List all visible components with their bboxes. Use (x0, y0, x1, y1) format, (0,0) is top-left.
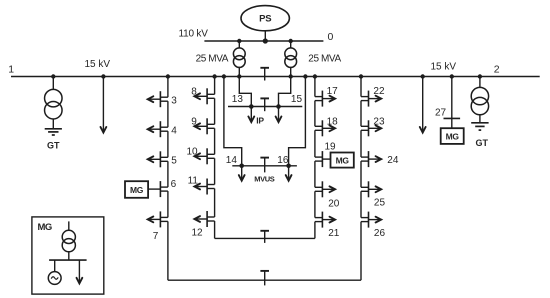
label node 25 (374, 197, 386, 208)
wire PS to 110 kV bus (264, 31, 266, 41)
legend transformer (62, 230, 75, 252)
label node 11 (188, 175, 199, 186)
node 14 junction (239, 164, 244, 169)
label node 16 (277, 155, 289, 166)
label node 19 (325, 142, 337, 153)
label node 14 (226, 155, 238, 166)
power source PS (241, 6, 289, 31)
load arrow node 14 (239, 166, 245, 181)
switch 18 (315, 120, 335, 136)
NO switch outer tie (260, 271, 269, 286)
svg-text:5: 5 (171, 155, 177, 166)
label 25 MVA right (308, 54, 341, 65)
label IP (256, 115, 264, 125)
svg-text:15 kV: 15 kV (431, 62, 457, 73)
label node 26 (374, 228, 386, 239)
switch 4 (148, 121, 168, 137)
node 1-2 main bus 15 kV (11, 76, 540, 78)
svg-text:15 kV: 15 kV (85, 59, 111, 70)
switch 23 (361, 120, 381, 136)
label node 8 (191, 87, 197, 98)
MVUS tie wire (232, 165, 297, 167)
legend generator (48, 260, 61, 284)
svg-text:MG: MG (446, 131, 460, 141)
svg-text:18: 18 (327, 117, 339, 128)
label 110 kV (179, 29, 209, 40)
svg-text:12: 12 (192, 227, 204, 238)
label node 0 (328, 31, 334, 43)
svg-text:15: 15 (291, 94, 303, 105)
svg-text:10: 10 (187, 146, 199, 157)
switch 17 (315, 91, 335, 107)
NO switch between transformers (260, 68, 269, 81)
switch 11 (194, 179, 214, 195)
outer tie wire (168, 279, 361, 281)
MG box at 6 (125, 181, 148, 198)
label node 6 (171, 179, 177, 190)
label node 10 (187, 146, 199, 157)
label node 15 (291, 94, 303, 105)
label node 17 (327, 86, 339, 97)
NO switch MVUS (260, 158, 269, 173)
label node 1 (8, 63, 14, 75)
svg-text:13: 13 (232, 94, 244, 105)
svg-text:25 MVA: 25 MVA (196, 54, 229, 65)
label node 7 (153, 231, 159, 242)
svg-text:21: 21 (328, 228, 340, 239)
NO switch IP (260, 98, 269, 111)
IP tie wire (228, 106, 302, 108)
NO switch 27 (444, 117, 461, 119)
label node 27 (435, 107, 447, 118)
legend wire top (68, 221, 70, 230)
ground GT right (471, 115, 488, 130)
svg-text:GT: GT (47, 140, 60, 150)
legend busbar (49, 259, 87, 261)
label node 2 (494, 64, 500, 76)
wire bus to node 14 (222, 74, 242, 166)
switch 19 (315, 151, 323, 167)
svg-text:23: 23 (373, 117, 385, 128)
svg-text:7: 7 (153, 231, 159, 242)
feeder wire A (nodes 3-7) (167, 77, 169, 281)
label node 4 (171, 125, 177, 136)
wire bus to node 15 (279, 74, 293, 106)
svg-text:3: 3 (171, 95, 177, 106)
switch 3 (148, 91, 168, 107)
switch 5 (148, 151, 168, 167)
svg-text:26: 26 (374, 228, 386, 239)
junction on 110 kV bus at T2 (289, 39, 293, 43)
svg-text:PS: PS (259, 14, 271, 25)
switch 24 (361, 151, 381, 167)
wire switch 19 to MG (322, 158, 330, 160)
MG box at 19 (331, 153, 354, 168)
svg-text:6: 6 (171, 179, 177, 190)
wire switch 6 to MG (148, 188, 160, 190)
svg-text:11: 11 (188, 175, 199, 186)
label 15 kV left (85, 59, 111, 70)
label node 22 (373, 86, 385, 97)
wire bus to node 16 (289, 74, 308, 166)
switch 26 (361, 212, 381, 228)
switch 22 (361, 91, 381, 107)
svg-text:IP: IP (256, 115, 264, 125)
svg-text:17: 17 (327, 86, 339, 97)
NO switch inner tie (260, 231, 269, 243)
switch 25 (361, 181, 381, 197)
switch 12 (194, 211, 214, 227)
node 0 bus 110 kV (204, 40, 323, 42)
label GT left (47, 140, 60, 150)
junction bus feeder B (212, 74, 216, 78)
svg-text:22: 22 (373, 86, 385, 97)
switch 10 (194, 148, 214, 164)
svg-text:4: 4 (171, 125, 177, 136)
label node 20 (328, 198, 340, 209)
label MVUS (254, 174, 274, 183)
label node 12 (192, 227, 204, 238)
wire bus to GT left (51, 74, 55, 89)
svg-text:14: 14 (226, 155, 238, 166)
node 16 junction (286, 164, 291, 169)
svg-text:MG: MG (336, 155, 350, 165)
ground GT left (45, 119, 62, 135)
label 25 MVA left (196, 54, 229, 65)
junction bus feeder A (166, 74, 170, 78)
node 13 junction (249, 104, 254, 109)
transformer T2 25 MVA (285, 41, 297, 77)
svg-text:MVUS: MVUS (254, 174, 274, 183)
legend label MG (38, 222, 52, 233)
junction bus feeder D (359, 74, 363, 78)
svg-text:24: 24 (387, 155, 399, 166)
label node 24 (387, 155, 399, 166)
svg-text:MG: MG (38, 222, 52, 233)
label node 21 (328, 228, 340, 239)
load arrow node 15 (276, 107, 282, 123)
svg-text:16: 16 (277, 155, 289, 166)
node 15 junction (276, 104, 281, 109)
svg-text:0: 0 (328, 31, 334, 43)
label node 18 (327, 117, 339, 128)
grid transformer GT right (471, 87, 488, 114)
label node 13 (232, 94, 244, 105)
svg-text:25: 25 (374, 197, 386, 208)
svg-text:GT: GT (475, 138, 488, 148)
switch 21 (315, 212, 335, 228)
svg-text:27: 27 (435, 107, 447, 118)
switch 7 (148, 211, 168, 227)
junction bus feeder C (313, 74, 317, 78)
feeder wire C (nodes 17-21) (314, 77, 316, 239)
svg-text:20: 20 (328, 198, 340, 209)
switch 20 (315, 181, 335, 197)
legend wire to busbar (68, 252, 70, 260)
switch 6 (160, 181, 168, 197)
switch 9 (194, 118, 214, 134)
svg-text:25 MVA: 25 MVA (308, 54, 341, 65)
wire bus to GT right (478, 74, 482, 87)
svg-text:2: 2 (494, 64, 500, 76)
load arrow on bus (420, 74, 426, 132)
junction on 110 kV bus at T1 (237, 39, 241, 43)
label node 9 (191, 116, 197, 127)
svg-text:1: 1 (8, 63, 14, 75)
svg-text:MG: MG (130, 185, 144, 195)
label 15 kV right (431, 62, 457, 73)
grid transformer GT left (45, 89, 63, 119)
wire bus to node 13 (237, 74, 251, 106)
load arrow node 16 (286, 166, 292, 181)
load arrow on bus (101, 74, 107, 132)
svg-text:110 kV: 110 kV (179, 29, 209, 40)
label node 5 (171, 155, 177, 166)
load arrow node 13 (248, 107, 254, 123)
legend load arrow (77, 260, 83, 283)
feeder wire D (nodes 22-26) (360, 77, 362, 281)
svg-text:19: 19 (325, 142, 337, 153)
svg-text:8: 8 (191, 87, 197, 98)
label node 23 (373, 117, 385, 128)
legend box (32, 217, 104, 294)
transformer T1 25 MVA (233, 41, 245, 77)
junction on 110 kV bus at PS (263, 38, 268, 43)
svg-text:9: 9 (191, 116, 197, 127)
switch 8 (194, 88, 214, 104)
label GT right (475, 138, 488, 148)
feeder wire B (nodes 8-12) (214, 77, 216, 239)
MG box at 27 (441, 128, 464, 144)
label node 3 (171, 95, 177, 106)
wire bus to node 27 (450, 74, 454, 128)
inner tie wire (215, 237, 315, 239)
